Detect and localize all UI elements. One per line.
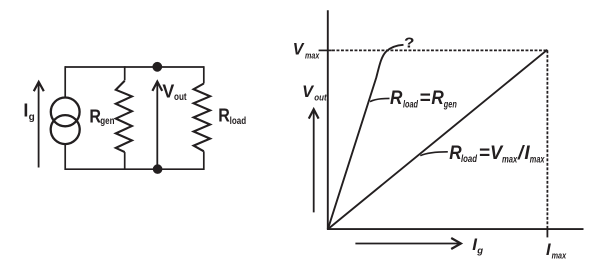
dashed line Vmax horizontal [332, 49, 547, 51]
svg-text:max: max [502, 154, 518, 165]
y-axis [327, 10, 329, 229]
wire bottom rail [65, 168, 204, 170]
svg-text:R: R [89, 106, 101, 126]
svg-text:max: max [552, 251, 567, 262]
wire left branch upper stub [64, 66, 66, 97]
svg-text:load: load [230, 116, 247, 127]
svg-text:load: load [461, 154, 478, 165]
resistor Rgen zigzag [116, 81, 132, 152]
svg-text:max: max [305, 50, 320, 61]
svg-text:?: ? [404, 35, 415, 52]
svg-text:max: max [530, 154, 545, 165]
svg-text:V: V [162, 82, 174, 102]
svg-text:out: out [174, 92, 187, 103]
wire Rgen branch lower stub [124, 152, 126, 170]
arrow Ig (current direction) [34, 82, 44, 168]
svg-text:I: I [546, 241, 551, 259]
label Rload=Rgen [390, 88, 457, 110]
curve Rload=Rgen (steep line saturating at Vmax) [328, 45, 404, 229]
wire left branch lower stub [64, 144, 66, 170]
wire Rgen branch upper stub [124, 66, 126, 80]
svg-text:V: V [302, 82, 314, 101]
wire top rail [65, 66, 204, 68]
svg-text:g: g [29, 112, 35, 123]
svg-text:R: R [431, 88, 444, 109]
svg-text:load: load [403, 99, 419, 110]
svg-text:out: out [314, 93, 327, 104]
wire Rload branch upper stub [203, 66, 205, 83]
node bottom (junction dot) [153, 164, 163, 174]
x-axis [327, 228, 584, 230]
leader line for Rload=Vmax/Imax label [420, 152, 448, 156]
line Rload=Vmax/Imax (diagonal) [328, 50, 548, 229]
svg-text:R: R [390, 88, 403, 109]
resistor Rload zigzag [194, 84, 211, 152]
svg-text:g: g [476, 246, 483, 257]
label Rload=Vmax/Imax [449, 143, 545, 165]
tick Imax below x-axis [546, 229, 548, 237]
arrow Vout [152, 82, 162, 165]
dashed line Imax vertical [546, 50, 548, 229]
svg-text:gen: gen [100, 116, 114, 127]
node top (junction dot) [152, 62, 162, 72]
svg-text:V: V [293, 40, 306, 58]
svg-text:R: R [218, 106, 230, 126]
wire Rload branch lower stub [203, 151, 205, 170]
svg-text:=: = [419, 88, 430, 109]
axis arrow Vout (vertical) [309, 109, 319, 212]
svg-text:gen: gen [443, 99, 457, 110]
axis arrow Ig (horizontal) [355, 238, 461, 249]
svg-text:=: = [479, 143, 490, 164]
tick Vmax on y-axis [319, 49, 332, 51]
leader line for Rload=Rgen label [370, 98, 390, 101]
current source Ig (two overlapping circles) [51, 98, 80, 145]
